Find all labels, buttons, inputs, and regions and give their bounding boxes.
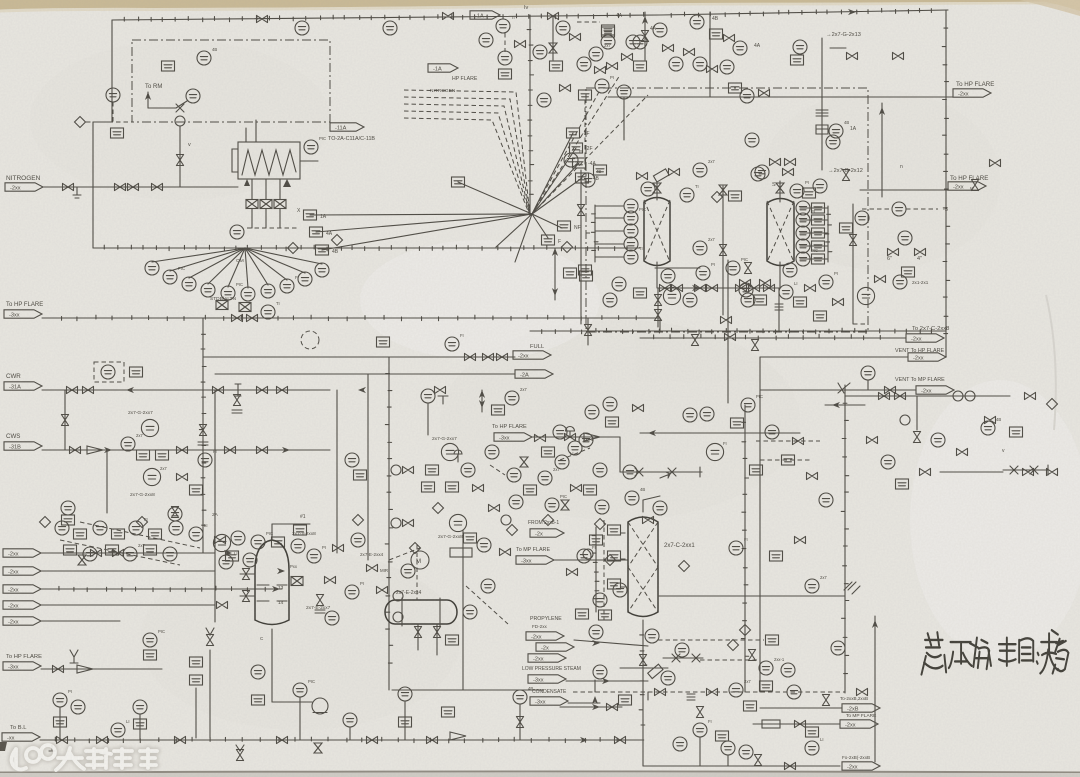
instrument v (805, 284, 816, 291)
pipe hatch ticks (199, 334, 206, 525)
strainer (87, 446, 103, 454)
instrument box (558, 221, 571, 231)
instrument b (442, 707, 455, 717)
inline silencer (816, 110, 828, 134)
instrument bubble (568, 441, 582, 455)
signal bundle wire (404, 104, 530, 215)
valve (128, 183, 139, 190)
valve (783, 168, 794, 175)
instrument bubble (796, 239, 810, 253)
instrument v (637, 172, 648, 179)
arrow (126, 387, 134, 393)
wire (709, 12, 711, 97)
valve (213, 386, 224, 393)
instrument c (683, 293, 697, 307)
main top header pipe (112, 10, 948, 20)
instrument bubble (123, 547, 137, 561)
instrument bubble (498, 51, 512, 65)
column top nozzle (642, 500, 644, 512)
instrument bubble (509, 495, 523, 509)
tap wire (800, 258, 828, 260)
instrument box (130, 367, 143, 377)
instrument bubble (325, 611, 339, 625)
instrument box (190, 657, 203, 667)
instrument c (243, 553, 257, 567)
instrument bubble (796, 213, 810, 227)
wire (554, 248, 556, 300)
signal bundle wire (404, 118, 530, 216)
pipe hatch ticks (942, 28, 949, 333)
tube wire (265, 179, 267, 199)
valve (177, 446, 188, 453)
wire (64, 390, 66, 450)
instrument bubble (603, 397, 617, 411)
wire (867, 380, 869, 390)
instrument box (1010, 427, 1023, 437)
fan ray (532, 163, 579, 214)
leader (176, 101, 187, 108)
instrument bubble (663, 287, 680, 304)
seal (583, 549, 593, 559)
instrument bubble (741, 398, 755, 412)
fan ray (532, 214, 562, 228)
instrument box (902, 267, 915, 277)
flag (4, 382, 42, 391)
instrument v (489, 504, 500, 511)
sight glass (953, 391, 963, 401)
instrument bubble (624, 250, 638, 264)
valve (177, 473, 188, 480)
valve (684, 48, 695, 55)
flow glass (549, 43, 557, 53)
valve (497, 353, 508, 360)
wire (655, 267, 700, 269)
instrument b (590, 535, 603, 545)
instrument c (831, 641, 845, 655)
instrument bubble (593, 665, 607, 679)
analyzer box (260, 200, 272, 209)
jog wire (93, 121, 112, 123)
wire (568, 702, 600, 704)
wire (574, 640, 648, 646)
instrument bubble (538, 471, 552, 485)
instrument bubble (690, 15, 704, 29)
glass (561, 500, 569, 510)
instrument c (481, 579, 495, 593)
column X brace (628, 522, 658, 612)
instrument c (197, 51, 211, 65)
valve (548, 12, 559, 19)
valve (83, 386, 94, 393)
pipe hatch ticks (124, 12, 643, 21)
arrow (104, 447, 112, 453)
valve (427, 736, 438, 743)
instrument c (485, 445, 499, 459)
instrument bubble (601, 35, 615, 49)
signal bundle wire (404, 111, 530, 215)
control valve (565, 427, 576, 441)
instrument v (515, 40, 526, 47)
instrument bubble (345, 453, 359, 467)
diamond (740, 625, 751, 636)
valve (707, 284, 718, 291)
wire (640, 432, 800, 434)
instrument box (144, 545, 157, 555)
instrument box (579, 265, 592, 275)
valve (414, 627, 421, 638)
fan ray (532, 133, 573, 214)
diamond PSV (75, 117, 86, 128)
arrow (224, 550, 232, 556)
valve (653, 183, 661, 193)
flag (4, 442, 42, 451)
glass (314, 743, 322, 753)
fan ray (515, 214, 532, 262)
signal wire (906, 208, 938, 210)
instrument c (589, 47, 603, 61)
pump (312, 698, 328, 714)
instrument dm (507, 525, 518, 536)
instrument b (782, 455, 795, 465)
arrow (358, 387, 366, 393)
valve (403, 466, 414, 473)
exchanger coil (242, 150, 296, 175)
instrument v (663, 44, 674, 51)
fan ray (152, 248, 245, 262)
instrument c (653, 501, 667, 515)
instrument bubble (626, 35, 640, 49)
vent mp flag (916, 386, 954, 395)
tube wire (251, 179, 253, 199)
arrow up (145, 92, 151, 100)
valve (483, 353, 494, 360)
flag (3, 662, 41, 671)
signal wire (700, 659, 760, 661)
instrument bubble (129, 521, 143, 535)
instrument box (106, 545, 119, 555)
valve (655, 688, 666, 695)
wire (580, 170, 582, 324)
instrument box (806, 727, 819, 737)
instrument bubble (857, 287, 874, 304)
signal wire (112, 102, 114, 122)
instrument c (653, 23, 667, 37)
valve (740, 279, 751, 286)
instrument box (422, 482, 435, 492)
wire to flag (215, 373, 515, 375)
instrument c (881, 455, 895, 469)
exchanger left head (232, 149, 238, 172)
valve small (176, 104, 184, 112)
wire (619, 437, 621, 472)
instrument box (573, 158, 586, 168)
wire (299, 697, 301, 740)
CWR line (42, 389, 330, 391)
instrument c (729, 541, 743, 555)
flag (842, 762, 880, 771)
instrument bubble (383, 21, 397, 35)
arrow (272, 586, 280, 592)
feed line 2 (41, 570, 215, 572)
instrument bubble (673, 737, 687, 751)
wire (852, 204, 854, 324)
instrument c (505, 391, 519, 405)
pipe hatch ticks (385, 374, 393, 664)
watermark logo and 大数跨境 (12, 745, 157, 770)
pipe hatch ticks (741, 422, 748, 656)
pipe hatch ticks (62, 315, 637, 321)
instrument bubble (793, 40, 807, 54)
valve (277, 386, 288, 393)
instrument b (226, 551, 239, 561)
signal wire (756, 440, 820, 442)
instrument bubble (198, 453, 212, 467)
tap wire (595, 217, 624, 219)
instrument bubble (101, 365, 115, 379)
instrument v (535, 434, 546, 441)
flag (528, 675, 566, 684)
tap wire (800, 207, 828, 209)
valve (236, 750, 243, 761)
arrow (580, 737, 588, 743)
flag (470, 11, 500, 20)
signal wire (584, 100, 586, 170)
instrument bubble (231, 531, 245, 545)
instrument bubble PRC (641, 182, 655, 196)
instrument bubble (781, 663, 795, 677)
instrument bubble (645, 629, 659, 643)
signal wire (862, 208, 890, 210)
instrument b (840, 223, 853, 233)
paper top right tan corner (1020, 0, 1080, 16)
valve (622, 53, 633, 60)
wire (552, 16, 554, 60)
hatch mark (687, 694, 695, 700)
signal wire (466, 586, 508, 624)
tap wire (595, 243, 624, 245)
instrument b (550, 61, 563, 71)
center vertical b (388, 357, 390, 690)
valve (225, 446, 236, 453)
valve (232, 314, 243, 321)
exchanger support (283, 179, 291, 187)
instrument bubble (461, 463, 475, 477)
wire (699, 737, 701, 766)
wire (349, 727, 351, 740)
motor circle (411, 551, 429, 569)
signal wire (504, 33, 506, 52)
valve (433, 627, 440, 638)
R2 bottom line (779, 262, 781, 288)
feed line 3 (41, 588, 282, 590)
fan ray (245, 248, 322, 264)
to-rm wire (148, 107, 176, 109)
instrument b (162, 61, 175, 71)
R2 instrument header (827, 206, 829, 262)
instrument bubble (189, 527, 203, 541)
arrow up (642, 16, 648, 24)
valve (696, 707, 703, 718)
paper left bottom nick (0, 742, 7, 751)
nozzle wire (240, 595, 255, 597)
fan ray (245, 248, 268, 285)
small rect eq (762, 720, 780, 728)
instrument bubble (83, 547, 97, 561)
instrument c (579, 433, 593, 447)
instrument bubble (696, 266, 710, 280)
instrument c (787, 685, 801, 699)
drain (49, 745, 55, 751)
instrument box (452, 177, 465, 187)
valve (571, 484, 582, 491)
valve (795, 720, 806, 727)
instrument c (805, 579, 819, 593)
instrument box (111, 128, 124, 138)
instrument box (812, 215, 825, 225)
x-x fence mid (620, 467, 702, 477)
valve (913, 432, 920, 443)
instrument box (499, 69, 512, 79)
FULL flag (513, 351, 551, 360)
instrument bubble (213, 534, 230, 551)
instrument vv (577, 205, 584, 216)
feed flag (3, 567, 41, 576)
instrument bubble (783, 263, 797, 277)
valve (516, 717, 523, 728)
diamond (562, 242, 573, 253)
xq (660, 472, 670, 478)
valve (847, 52, 858, 59)
instrument bubble (593, 593, 607, 607)
instrument v (643, 516, 654, 523)
signal wire (621, 532, 628, 534)
instrument bubble (61, 501, 75, 515)
valve (325, 576, 336, 583)
instrument c (533, 45, 547, 59)
seal (391, 465, 401, 475)
strainer (584, 433, 600, 441)
fan ray (245, 248, 248, 288)
flag (516, 556, 554, 565)
instrument box (524, 485, 537, 495)
valve (885, 386, 896, 393)
valve (719, 185, 727, 195)
instrument v (957, 448, 968, 455)
instrument bubble (745, 133, 759, 147)
wire (59, 707, 61, 740)
vent marks (70, 650, 78, 663)
flag (515, 370, 553, 379)
valve (888, 248, 899, 255)
instrument box (606, 417, 619, 427)
wire (336, 390, 338, 553)
fan ray (316, 214, 532, 232)
instrument box (794, 297, 807, 307)
valve (660, 284, 671, 291)
instrument bubble (633, 35, 647, 49)
to-rm riser (147, 92, 149, 108)
instrument b (492, 405, 505, 415)
instrument box (608, 551, 621, 561)
instrument box (74, 529, 87, 539)
instrument v (721, 316, 732, 323)
reactor R1 shell (644, 198, 670, 266)
diag ticks (844, 582, 860, 594)
wire to FULL flag (203, 356, 515, 358)
tee (438, 396, 448, 404)
wire (139, 714, 141, 740)
arrow (832, 402, 840, 408)
R2 top nozzle (779, 181, 781, 202)
diamond (353, 515, 364, 526)
instrument bubble (680, 188, 694, 202)
instrument bubble (55, 521, 69, 535)
R1 bottom line (656, 262, 658, 288)
diamond (712, 192, 723, 203)
wire (643, 496, 660, 500)
flag (530, 529, 564, 538)
flare branch (881, 103, 883, 197)
arrow (282, 447, 290, 453)
tap wire (595, 256, 624, 258)
instrument bubble (445, 337, 459, 351)
instrument bubble (706, 443, 723, 460)
valve (785, 762, 796, 769)
instrument bubble (623, 465, 637, 479)
lower header pipe to fan node (293, 247, 640, 249)
fan ray (245, 248, 287, 280)
valve (63, 183, 74, 190)
valve (920, 468, 931, 475)
instrument box (760, 681, 773, 691)
instrument bubble (739, 745, 753, 759)
instrument box (812, 241, 825, 251)
tap wire (800, 245, 828, 247)
wire (830, 47, 846, 49)
wire (560, 706, 622, 708)
instrument box (190, 675, 203, 685)
pipe hatch ticks (825, 214, 832, 251)
instrument b (594, 165, 607, 175)
instrument box (812, 254, 825, 264)
diamond (137, 517, 148, 528)
instrument v (857, 688, 868, 695)
valve (691, 335, 698, 346)
dashed box (94, 362, 124, 382)
tap wire (595, 230, 624, 232)
instrument bubble (733, 41, 747, 55)
instrument box (599, 610, 612, 620)
signal bundle wire (532, 90, 600, 214)
CWS line (42, 449, 330, 451)
instrument bubble (595, 500, 609, 514)
TO HP FLARE flag 2 (948, 182, 986, 191)
instrument box (814, 311, 827, 321)
small eq (450, 548, 472, 557)
instrument bubble (111, 723, 125, 737)
instrument box (729, 83, 742, 93)
instrument bubble (251, 535, 265, 549)
valve (175, 736, 186, 743)
diamond (288, 243, 299, 254)
pipe hatch ticks (671, 8, 931, 17)
instrument vv (822, 695, 829, 706)
valve (257, 446, 268, 453)
wire (554, 559, 628, 561)
sight glass (900, 415, 910, 425)
pump bubble (141, 419, 158, 436)
feed flag (3, 617, 41, 626)
